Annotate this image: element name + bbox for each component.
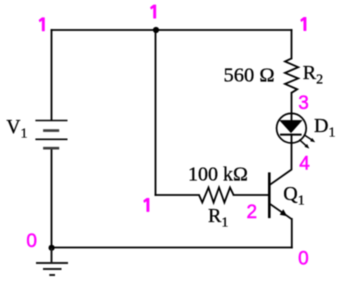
svg-text:560 Ω: 560 Ω bbox=[224, 64, 275, 86]
wire: base wire from middle vertical to R1 left end bbox=[156, 194, 200, 196]
svg-text:0: 0 bbox=[26, 231, 37, 252]
wire: left vertical from top rail down to battery top plate bbox=[51, 30, 53, 120]
wire: left vertical from battery bottom plate down to bottom rail bbox=[51, 149, 53, 249]
svg-text:3: 3 bbox=[298, 93, 309, 114]
svg-text:V1: V1 bbox=[6, 117, 27, 142]
wire: right vertical from top rail to R2 top bbox=[291, 30, 293, 58]
ground symbol bbox=[36, 248, 68, 275]
svg-text:D1: D1 bbox=[314, 115, 335, 141]
junction dot at node 0 (bottom rail / ground) bbox=[49, 245, 55, 251]
LED D1 triangle (anode) bbox=[280, 121, 301, 133]
node 1 label (top right) bbox=[301, 17, 307, 30]
wire: bottom rail (node 0) bbox=[52, 247, 292, 249]
transistor Q1 emitter lead bbox=[270, 204, 292, 219]
LED D1 cathode bar bbox=[280, 134, 302, 136]
svg-text:Q1: Q1 bbox=[283, 183, 304, 209]
resistor R2 zigzag bbox=[285, 58, 298, 92]
transistor Q1 base bar bbox=[268, 172, 271, 218]
wire: middle vertical drop (node 1) from top rail to base wire bbox=[155, 30, 157, 195]
junction dot at node 1 (top rail / middle drop) bbox=[153, 27, 159, 33]
LED light arrow 1 bbox=[304, 135, 315, 142]
battery V1 bbox=[35, 121, 67, 149]
svg-text:R1: R1 bbox=[208, 205, 228, 231]
wire: through LED from cathode bar down to collector corner (node 4) bbox=[291, 135, 293, 170]
LED D1 circle bbox=[277, 113, 307, 143]
wire: top rail (node 1) from left corner to right corner bbox=[52, 29, 292, 31]
resistor R1 zigzag bbox=[199, 188, 234, 203]
wire: from R2 bottom to LED top (node 3) bbox=[291, 93, 293, 121]
node 1 label (top left) bbox=[39, 18, 45, 31]
svg-text:4: 4 bbox=[299, 153, 310, 174]
wire: base wire from R1 right end to Q1 base bar (node 2) bbox=[234, 194, 269, 196]
svg-text:100 kΩ: 100 kΩ bbox=[188, 164, 248, 186]
LED light arrow 2 bbox=[299, 140, 309, 149]
svg-text:0: 0 bbox=[298, 249, 309, 270]
node 1 label (top middle) bbox=[150, 5, 156, 18]
svg-text:2: 2 bbox=[247, 202, 258, 223]
transistor Q1 emitter arrowhead bbox=[280, 209, 288, 216]
wire: emitter vertical down to bottom rail bbox=[291, 219, 293, 248]
svg-text:R2: R2 bbox=[303, 62, 323, 88]
transistor Q1 collector lead bbox=[270, 170, 292, 185]
node 1 label (left of R1) bbox=[144, 198, 150, 211]
